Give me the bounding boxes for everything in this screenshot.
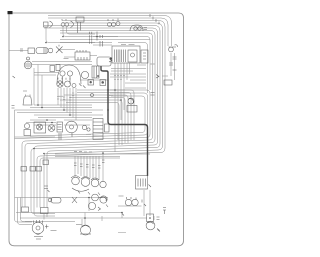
wire: lines above gauges [55,153,150,155]
junction box B [41,208,49,214]
fuel pump [81,225,91,235]
wire: vertical drops from instrument row into bus [57,88,59,105]
wire: right bundle line 9 [22,90,150,200]
sidelamp connector cluster [108,23,112,27]
wire: verticals left column [15,110,33,222]
wire: main bus bundle left band [34,104,92,106]
junction box A [22,207,29,212]
gauges row [72,177,80,185]
wire: bottom feed lines [15,197,109,199]
heavy battery cable [101,66,148,176]
petrol pump cylinder [51,198,61,204]
generator with pilot [24,61,32,69]
switch X bottom [72,197,77,203]
regulator box [136,176,148,190]
wire: lamp drop 3 [67,27,96,34]
clock [66,121,78,133]
wire: bottom-left fan corners [18,198,33,225]
rear lamp right top [169,47,174,52]
headlamp RH [61,23,65,27]
instrument small [57,122,63,132]
wire: top bundle line 1 to RH lamp drop [48,16,172,47]
wire: bottom right cluster links [125,205,138,207]
wire: top bundle line 3 [37,21,165,201]
turn flasher [57,81,63,87]
ticks on right bundle [151,93,155,96]
fuse holders [50,66,55,72]
page index tab [8,11,13,14]
distributor [32,222,44,234]
wire: top bundle line 5 [44,26,160,199]
wire: right lamp vertical [171,53,175,76]
panel switch [48,125,55,132]
ignition switch rounded [97,57,111,66]
border frame earth-return wire [9,13,184,246]
wire: top bundle line 8 [25,33,153,200]
junction box on top lines [76,17,84,22]
starter [81,71,88,78]
wire: top bundle line 4 [44,23,163,198]
wire: gauge feed verticals [74,156,76,177]
wire: lamp drop 2 [63,27,118,37]
wire: thin verticals mid x115-127 [114,63,116,152]
snap connector ticks column [100,35,103,38]
relay small [88,80,94,86]
ticks top bundle [150,14,159,25]
fuse unit hatched [112,46,140,63]
wire: top bundle line 7 [34,31,155,201]
wire: top bundle line 6 [31,28,158,200]
ignition coil cylinder [28,48,35,54]
wire: bottom mid verticals [88,198,90,212]
wire: right bundle line 10 [15,93,148,139]
wire: generator feeds [32,61,92,63]
stop lamp pair [125,199,131,205]
horn [23,96,32,105]
connector ticks on gauge feeds [74,163,77,166]
label smudges [23,45,155,231]
wire: LH lamp drop [46,27,95,43]
starter switch box [92,66,99,78]
ammeter circle [88,202,95,209]
small ground arrows [156,75,159,79]
connector box right [164,80,172,85]
wire: fan lines into right-mid verticals [77,90,134,140]
wiper motor [128,98,134,104]
auxiliary unit [141,50,148,63]
circle w tick bottom [92,194,99,201]
wire: mid lines y72-83 [34,72,58,74]
wire: short bus at left y137-139 [15,136,56,138]
fuse box hatched [93,119,103,140]
tank unit [147,214,154,222]
coil bottom [36,233,41,235]
starter solenoid [100,196,107,203]
wire: right bundle line 11 [30,96,145,136]
warning lamp [24,123,29,128]
border tap ticks [12,106,15,109]
wire: coil line from border [9,50,28,52]
wire: top bundle line 2 [48,18,168,46]
wire: fuel tank feed [150,190,154,220]
dip switch X [56,45,63,53]
small pair [82,125,86,129]
speedometer housing [130,25,143,31]
connector blocks on left verticals [21,167,27,172]
control box [75,52,90,60]
dynamo arch [57,65,81,84]
wire: rear stub lines [40,158,120,200]
headlamp LH [44,22,49,27]
ignition-light switch [34,122,46,133]
wire: mid bus lines [60,39,150,41]
